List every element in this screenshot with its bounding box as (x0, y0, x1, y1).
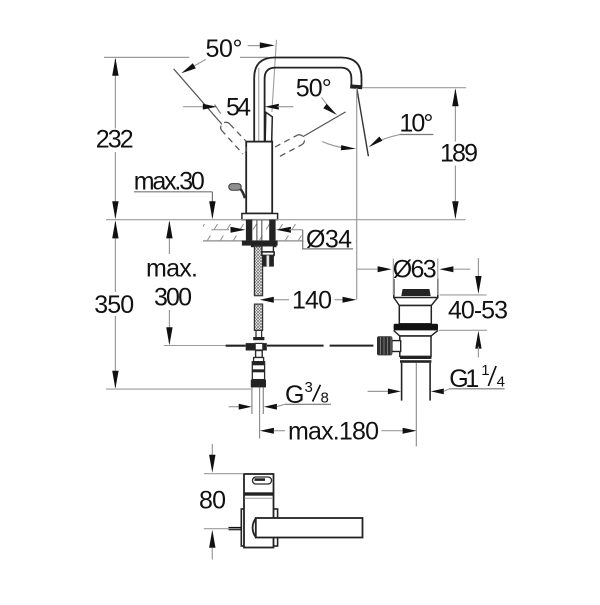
max.300 bottom reference line (164, 345, 226, 347)
svg-text:50°: 50° (206, 35, 243, 63)
countertop top line (106, 219, 466, 221)
pop-up rod cross fitting (246, 343, 267, 350)
pop-up plug bar (401, 289, 430, 296)
bottom view lever bar (256, 518, 363, 538)
body (246, 142, 272, 214)
faucet centerline (258, 68, 260, 220)
rubber seal ring (394, 324, 438, 331)
dimension 232 (114, 59, 116, 129)
dimension 40-53 (477, 258, 479, 278)
dimension Ø63 (392, 259, 394, 296)
bottom view lever circle re-stroke (253, 518, 256, 537)
horizontal pull rod to pop-up (broken) (267, 345, 324, 347)
hoses inside shank (256, 220, 258, 241)
bottom view pull rod (229, 527, 242, 530)
svg-text:1: 1 (481, 362, 489, 379)
svg-text:140: 140 (292, 287, 332, 315)
svg-text:3: 3 (305, 379, 313, 396)
water stream 10-degree line (357, 88, 369, 156)
svg-text:300: 300 (154, 284, 192, 312)
threaded shank right wall (269, 220, 275, 241)
dimension 350 (114, 222, 116, 292)
countertop hatching (194, 220, 363, 241)
rod knob stem (392, 341, 401, 352)
spout inner outline (265, 68, 352, 142)
svg-text:max.: max. (146, 255, 198, 283)
pop-up pull rod knob (229, 184, 241, 191)
side connection stub (262, 246, 274, 252)
lever axis reference line (272, 40, 277, 112)
bottom view back plate (241, 509, 277, 546)
dashed handle rotated left (221, 122, 247, 154)
svg-text:54: 54 (226, 94, 251, 122)
countertop bottom line (203, 240, 357, 242)
locknut (400, 356, 431, 359)
spout top reference line middle segment (240, 56, 268, 58)
350 bottom reference line (106, 388, 251, 390)
threaded shank left wall (246, 220, 252, 241)
left handle axis extension line (174, 69, 222, 125)
check valve nut (251, 380, 266, 388)
spout outer outline (254, 58, 361, 142)
lever handle (neutral) (265, 112, 272, 141)
supply pipe below valve (251, 387, 253, 414)
svg-text:G1: G1 (449, 365, 479, 393)
svg-text:Ø34: Ø34 (306, 225, 352, 253)
mounting nut (242, 241, 278, 246)
svg-text:max.180: max.180 (288, 418, 379, 446)
dimension max.180 (260, 428, 274, 434)
svg-text:350: 350 (94, 291, 134, 319)
vertical reference line from outlet (356, 88, 358, 300)
dimension 140 (260, 297, 274, 303)
svg-text:10°: 10° (399, 110, 433, 138)
bottom view lever pivot circle (246, 512, 277, 543)
tailpipe (401, 363, 403, 401)
dimension 189 (454, 90, 456, 142)
svg-text:189: 189 (440, 140, 478, 168)
spout outlet end (350, 84, 362, 89)
spout top reference line left segment (104, 56, 189, 58)
svg-text:40-53: 40-53 (448, 296, 508, 324)
lower taper (394, 330, 438, 336)
svg-text:50°: 50° (296, 75, 332, 103)
bottom view body (244, 474, 274, 548)
dashed handle rotated right (275, 135, 304, 156)
knurled rod knob (377, 336, 392, 355)
pop-up waste flange (394, 279, 438, 298)
svg-text:4: 4 (497, 373, 505, 390)
horizontal pull rod to left (226, 345, 246, 347)
label G 1 1/4 (368, 390, 388, 392)
hose end fitting (255, 330, 257, 337)
dimension Ø34 (212, 229, 230, 231)
dimension 54 (183, 106, 204, 108)
svg-text:232: 232 (96, 126, 134, 154)
tick on left handle upper edge (54 ref) (215, 105, 221, 114)
lower body (400, 336, 431, 356)
base plate (242, 214, 278, 220)
neck cylinder (399, 306, 431, 324)
dimension max.300 (168, 222, 170, 254)
svg-text:8: 8 (321, 389, 329, 406)
svg-text:G: G (285, 381, 304, 409)
tailpipe centerline (415, 363, 417, 447)
flexible supply hose upper segment (254, 246, 262, 296)
right handle axis extension line (303, 112, 346, 137)
dimension 80 (204, 473, 244, 475)
svg-text:80: 80 (199, 486, 226, 514)
label G 3/8 (229, 406, 240, 408)
supply pipe centerline extension (259, 387, 261, 438)
flexible supply hose lower segment (254, 304, 262, 330)
bottom view spout slot (253, 477, 272, 484)
bottom view dark band (245, 492, 274, 495)
angle arc arrow to vertical line (322, 142, 350, 149)
flange taper (394, 298, 438, 306)
outlet level reference line (362, 87, 466, 89)
check valve (254, 358, 264, 362)
svg-text:Ø63: Ø63 (393, 255, 437, 283)
